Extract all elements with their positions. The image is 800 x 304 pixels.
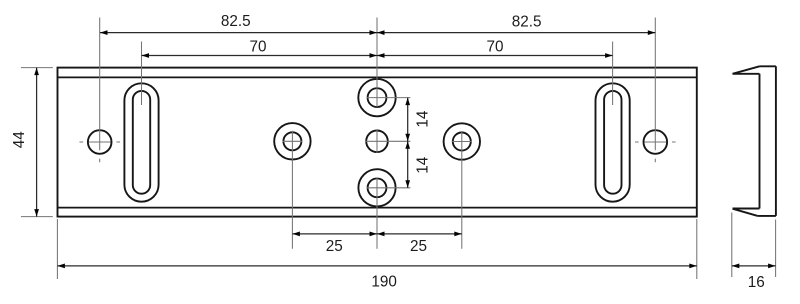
side view top lip underside (733, 73, 760, 75)
dimension 70 left (142, 55, 378, 57)
centerline bottom-center hole horizontal (367, 187, 411, 189)
centerline slot left (141, 42, 143, 106)
dimension 44 (36, 68, 38, 217)
slot right inner (604, 91, 621, 194)
plate bottom bend line (58, 207, 697, 209)
svg-text:14: 14 (415, 156, 432, 174)
dimension 82.5 right (377, 32, 655, 34)
plate outline (front view) (58, 68, 697, 217)
side view bottom lip slant (733, 209, 758, 216)
hole center (366, 131, 388, 153)
svg-text:70: 70 (486, 38, 503, 55)
extension lines 44 (21, 68, 53, 217)
centerline slot right (612, 42, 614, 106)
svg-text:16: 16 (748, 274, 765, 291)
hole top-center inner (368, 88, 387, 107)
slot left inner (133, 91, 150, 194)
hole bottom-center inner (368, 178, 387, 197)
hole mid-right inner (453, 133, 471, 151)
dimension 70 right (377, 55, 613, 57)
hole far left (88, 130, 112, 154)
extension lines 16 (732, 213, 776, 278)
side view right outer edge (775, 66, 777, 216)
centerline mid-right hole (452, 131, 472, 249)
svg-text:190: 190 (371, 274, 397, 291)
svg-text:25: 25 (326, 238, 343, 255)
side view bottom edge (758, 215, 776, 217)
dimension 14 top (407, 98, 409, 188)
dimension 190 (57, 265, 696, 267)
slot right outer (596, 83, 630, 201)
centerline mid-left hole (282, 131, 302, 249)
centerline center hole (366, 130, 411, 153)
centerline far-right hole horizontal (635, 141, 676, 143)
side view top lip slant (733, 66, 760, 74)
plate top bend line (58, 76, 697, 78)
dimension 16 (732, 265, 776, 267)
slot left outer (124, 83, 158, 201)
svg-text:25: 25 (410, 238, 427, 255)
centerline far-left hole horizontal (79, 141, 120, 143)
side view bottom lip top (733, 208, 760, 210)
svg-text:44: 44 (11, 131, 28, 149)
hole bottom-center outer (358, 169, 395, 206)
side view top edge (760, 65, 776, 67)
svg-text:14: 14 (415, 110, 432, 128)
dimension 14 bottom (405, 141, 410, 149)
centerline center column vertical top segment (376, 18, 378, 108)
dimension 25 left (292, 233, 461, 235)
dimension 82.5 left (100, 32, 377, 34)
hole mid-right outer (444, 123, 480, 159)
hole mid-left inner (283, 132, 301, 150)
extension lines 190 (57, 219, 696, 279)
hole top-center outer (358, 79, 395, 116)
centerline far-left hole vertical + 82.5 extension (99, 18, 101, 163)
side view inner web edge (759, 74, 761, 209)
svg-text:70: 70 (249, 38, 266, 55)
centerline top-center hole horizontal (367, 97, 411, 99)
centerline far-right hole vertical + 82.5 extension (654, 18, 656, 163)
svg-text:82.5: 82.5 (221, 13, 251, 30)
hole far right (644, 130, 668, 154)
dimension 25 right (377, 232, 385, 237)
side view profile (733, 66, 776, 216)
svg-text:82.5: 82.5 (512, 13, 542, 30)
hole mid-left outer (274, 123, 310, 159)
centerline center column vertical bottom segment + 25 extension (376, 178, 378, 249)
